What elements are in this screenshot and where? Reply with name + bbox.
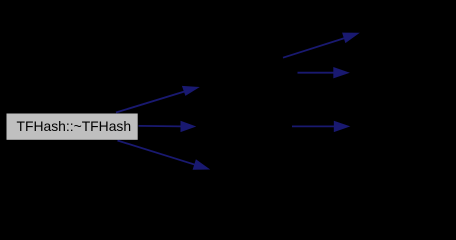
wire: edge from hidden node M1 to hidden node R2	[298, 67, 350, 78]
wire: edge from hidden node M2 to hidden node R3	[292, 121, 350, 132]
node label TFHash::~TFHash	[8, 112, 139, 138]
node TFHash::~TFHash (main node box)	[7, 114, 138, 140]
wire: edge from TFHash::~TFHash to hidden node M1	[116, 86, 200, 113]
wire: edge from TFHash::~TFHash to hidden node M3	[118, 141, 211, 170]
wire: edge from TFHash::~TFHash to hidden node M2	[139, 121, 197, 132]
wire: edge from hidden node M1 to hidden node R1	[283, 33, 360, 58]
